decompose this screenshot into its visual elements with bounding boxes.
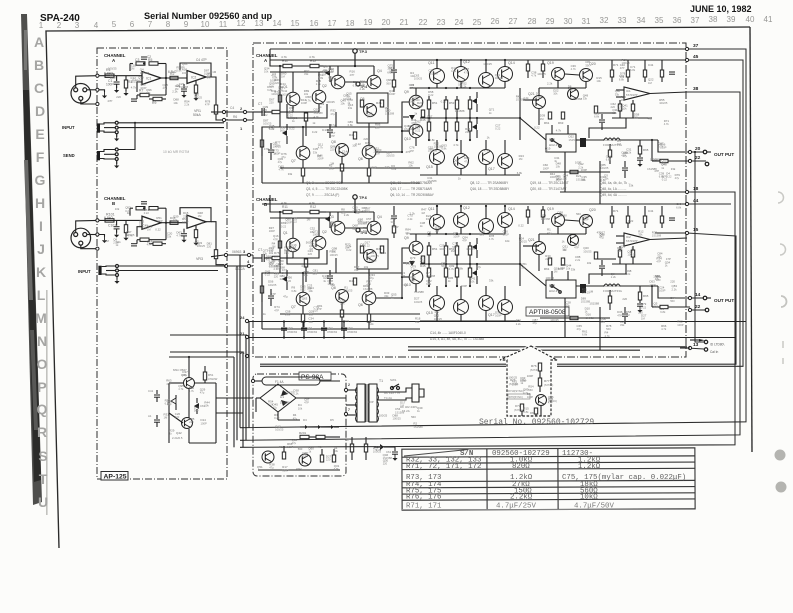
- wire relay feeds: [551, 125, 553, 134]
- svg-text:100P: 100P: [106, 83, 113, 87]
- ground SEND A: [116, 161, 118, 165]
- svg-text:26: 26: [491, 17, 500, 26]
- svg-text:47P: 47P: [617, 313, 622, 317]
- diode D13: [409, 115, 415, 120]
- rc cluster right: [610, 70, 613, 77]
- svg-text:M: M: [35, 310, 47, 326]
- svg-text:100P: 100P: [329, 167, 335, 171]
- diode D12: [472, 270, 477, 276]
- svg-text:4.7k: 4.7k: [451, 69, 457, 73]
- wire XLR pin2 to node: [76, 76, 98, 88]
- svg-text:R71: R71: [613, 63, 619, 67]
- bus 350: [408, 349, 640, 351]
- capacitor C51: [303, 322, 305, 328]
- svg-text:6.8k: 6.8k: [429, 138, 435, 142]
- svg-text:100P: 100P: [653, 275, 660, 279]
- svg-text:FOR MUTING: FOR MUTING: [603, 289, 623, 293]
- svg-text:2.2k: 2.2k: [410, 212, 416, 216]
- resistor bank right mid: [526, 64, 529, 71]
- op-amp U1: [142, 72, 161, 85]
- svg-text:47P: 47P: [304, 401, 309, 405]
- svg-text:C41: C41: [648, 209, 654, 213]
- node out A lower: [222, 118, 225, 121]
- svg-text:47μ: 47μ: [476, 265, 481, 269]
- svg-text:220: 220: [638, 310, 643, 314]
- svg-text:10k: 10k: [173, 101, 178, 105]
- diff collector wires: [292, 218, 294, 238]
- svg-text:B: B: [112, 201, 115, 206]
- svg-text:220: 220: [308, 252, 313, 256]
- rc cluster right: [610, 216, 613, 223]
- connector XLR channel A input: [71, 84, 91, 104]
- svg-text:TA7317P: TA7317P: [626, 239, 638, 243]
- svg-text:K: K: [36, 264, 46, 280]
- capacitor C101: [116, 220, 118, 225]
- svg-text:560: 560: [561, 266, 566, 270]
- svg-text:100/25: 100/25: [326, 100, 335, 104]
- wire top rail stub: [270, 195, 279, 212]
- svg-text:560: 560: [411, 415, 416, 419]
- diode D13: [409, 261, 415, 266]
- svg-text:33k: 33k: [634, 116, 639, 120]
- binder strip left: [21, 14, 48, 515]
- transistor Q15 output low: [430, 296, 445, 311]
- resistor R47: [392, 226, 395, 233]
- binder holes right: [775, 450, 786, 461]
- svg-text:100/25: 100/25: [393, 416, 402, 420]
- svg-text:100P: 100P: [342, 153, 348, 157]
- svg-text:33k: 33k: [348, 106, 353, 110]
- svg-text:R51: R51: [432, 101, 438, 105]
- svg-text:100P: 100P: [417, 104, 423, 108]
- svg-text:1S1588: 1S1588: [179, 85, 189, 89]
- svg-text:Q42: Q42: [176, 431, 182, 435]
- svg-text:100P: 100P: [461, 284, 468, 288]
- svg-text:6.8k: 6.8k: [458, 266, 464, 270]
- node pin1: [96, 88, 99, 91]
- svg-text:(SYNC): (SYNC): [544, 383, 553, 387]
- svg-text:R41: R41: [349, 133, 355, 137]
- capacitor C13: [327, 129, 333, 131]
- svg-text:33k: 33k: [629, 184, 634, 188]
- bias network block: [357, 239, 388, 269]
- svg-text:Q48, 4c, 1A ..........: Q48, 4c, 1A ..........: [600, 187, 627, 191]
- svg-text:4.7k: 4.7k: [314, 115, 320, 119]
- svg-text:1M: 1M: [589, 289, 594, 293]
- svg-text:6.8k: 6.8k: [676, 205, 682, 209]
- svg-text:100/25: 100/25: [414, 76, 423, 80]
- wire XLR pin3 to node: [81, 100, 98, 104]
- resistor R2: [170, 76, 178, 79]
- node out B upper: [224, 253, 227, 256]
- resistor R23 tail: [304, 113, 307, 121]
- svg-text:1M: 1M: [212, 70, 217, 74]
- svg-text:10k: 10k: [505, 239, 510, 243]
- svg-text:OUT PUT: OUT PUT: [714, 298, 734, 303]
- transistor Q3 mirror: [331, 221, 345, 235]
- transistor Q4 mirror: [367, 221, 381, 235]
- table bottom faded line: [402, 509, 695, 511]
- svg-text:220: 220: [275, 81, 280, 85]
- transistor Q14 output: [498, 213, 513, 228]
- svg-text:0.22: 0.22: [300, 288, 306, 292]
- muting caps: [154, 394, 160, 396]
- svg-text:6.8k: 6.8k: [536, 95, 542, 99]
- svg-text:22: 22: [419, 18, 428, 27]
- svg-text:33k: 33k: [415, 320, 420, 324]
- transistor Q4 mirror: [367, 75, 381, 89]
- svg-text:220: 220: [563, 176, 568, 180]
- diode D7: [380, 444, 384, 450]
- node B pin2: [96, 219, 99, 222]
- svg-text:47P: 47P: [278, 89, 283, 93]
- svg-text:47P: 47P: [462, 239, 467, 243]
- svg-text:100P: 100P: [282, 468, 288, 472]
- bus wire y338: [249, 337, 736, 339]
- svg-text:37: 37: [693, 43, 699, 49]
- node B pin1: [96, 233, 99, 236]
- svg-text:C101: C101: [108, 224, 116, 228]
- svg-text:10k: 10k: [553, 92, 558, 96]
- wire U2 output to VR1: [211, 77, 216, 105]
- svg-text:37: 37: [691, 16, 700, 25]
- svg-text:220: 220: [139, 222, 144, 226]
- wire XLR pin1 to node: [87, 89, 98, 91]
- svg-text:220: 220: [313, 272, 318, 276]
- svg-text:47μ: 47μ: [647, 117, 652, 121]
- node out A upper: [222, 110, 225, 113]
- svg-text:Q21: Q21: [528, 238, 535, 242]
- feedback U3: [161, 222, 166, 224]
- svg-text:SPA-240: SPA-240: [40, 13, 80, 24]
- svg-text:10k: 10k: [298, 406, 303, 410]
- wire ground stub: [99, 90, 105, 92]
- protection transistor Q19: [552, 68, 565, 81]
- svg-text:Q14: Q14: [508, 61, 515, 65]
- svg-text:6.8k: 6.8k: [630, 68, 636, 72]
- supply rail +B: [270, 48, 687, 50]
- protection transistor Q20: [580, 69, 593, 82]
- svg-text:9: 9: [184, 20, 189, 29]
- svg-text:C2: C2: [147, 55, 151, 59]
- capacitor C7 input coupling: [253, 111, 262, 113]
- svg-text:1S1588: 1S1588: [541, 217, 551, 221]
- svg-text:10k: 10k: [345, 245, 350, 249]
- svg-text:6: 6: [130, 20, 135, 29]
- resistor R12: [310, 210, 319, 213]
- transistor Q10 driver: [409, 124, 423, 138]
- svg-text:10k: 10k: [310, 241, 315, 245]
- svg-text:R79: R79: [515, 404, 521, 408]
- svg-text:100P: 100P: [313, 233, 319, 237]
- capacitor C45: [622, 167, 628, 169]
- svg-text:J: J: [37, 241, 45, 257]
- svg-text:10k: 10k: [264, 70, 269, 74]
- branch down x695: [695, 152, 704, 342]
- svg-text:100/25: 100/25: [126, 233, 135, 237]
- svg-text:4.7k: 4.7k: [176, 234, 182, 238]
- svg-text:SEND: SEND: [63, 153, 75, 158]
- ic comparator: [624, 233, 650, 246]
- svg-text:100P: 100P: [201, 421, 207, 425]
- emitter resistors top: [427, 246, 430, 255]
- svg-text:47P: 47P: [574, 246, 579, 250]
- protection transistor Q22: [568, 89, 579, 100]
- svg-text:4.7k: 4.7k: [189, 389, 195, 393]
- diode: [331, 425, 334, 429]
- svg-text:47μ: 47μ: [182, 373, 187, 377]
- transistor Q11 output: [430, 215, 445, 230]
- inductor L: [604, 138, 620, 140]
- svg-text:100/25: 100/25: [659, 101, 668, 105]
- resistor cluster protection: [548, 258, 551, 265]
- jack SEND A: [97, 151, 100, 160]
- svg-text:0.22: 0.22: [274, 416, 280, 420]
- svg-text:38: 38: [693, 86, 699, 92]
- transistor Q16 output low: [454, 300, 469, 315]
- vertical mesh wires: [279, 66, 281, 127]
- svg-text:220: 220: [263, 108, 268, 112]
- svg-text:TA7317P: TA7317P: [626, 93, 638, 97]
- svg-text:47P: 47P: [205, 102, 210, 106]
- protection transistor Q20: [580, 215, 593, 228]
- resistor column mid: [353, 278, 356, 285]
- svg-text:10k: 10k: [556, 165, 561, 169]
- svg-text:2.2k: 2.2k: [360, 87, 366, 91]
- relay contacts: [551, 139, 553, 141]
- svg-text:47P: 47P: [620, 66, 625, 70]
- resistor stack below IC: [631, 104, 634, 111]
- svg-text:33k: 33k: [571, 268, 576, 272]
- svg-text:47μ: 47μ: [545, 150, 550, 154]
- svg-text:2.2k: 2.2k: [328, 70, 334, 74]
- svg-text:47μ: 47μ: [163, 86, 168, 90]
- svg-text:R41: R41: [349, 279, 355, 283]
- svg-text:33k: 33k: [581, 178, 586, 182]
- svg-text:15: 15: [291, 19, 300, 28]
- svg-text:C: C: [34, 80, 44, 96]
- resistor R43: [421, 110, 424, 117]
- transistor Q7 lower left: [296, 292, 310, 306]
- svg-text:560: 560: [576, 212, 581, 216]
- svg-text:2.2k: 2.2k: [172, 90, 178, 94]
- svg-text:220: 220: [326, 458, 331, 462]
- svg-text:560: 560: [298, 447, 303, 451]
- svg-text:0.22: 0.22: [441, 99, 447, 103]
- svg-text:100P: 100P: [453, 234, 459, 238]
- svg-text:Q2: Q2: [322, 84, 327, 88]
- arrow mark: [699, 339, 705, 341]
- svg-text:220: 220: [383, 462, 388, 466]
- svg-text:R71: R71: [613, 209, 619, 213]
- svg-text:33k: 33k: [354, 268, 359, 272]
- resistor R11: [283, 210, 292, 213]
- emitter resistors top: [427, 100, 430, 109]
- bus west 364: [260, 363, 507, 365]
- svg-text:0.22: 0.22: [289, 127, 295, 131]
- svg-text:10k: 10k: [521, 265, 526, 269]
- svg-text:47P: 47P: [330, 134, 335, 138]
- svg-text:220: 220: [480, 233, 485, 237]
- wire diff emitters: [293, 250, 319, 258]
- bus wire y322: [249, 321, 746, 323]
- right bus verticals: [240, 49, 746, 447]
- svg-text:1S1588: 1S1588: [650, 157, 660, 161]
- transistor Q15 output low: [430, 150, 445, 165]
- svg-text:1S1588: 1S1588: [426, 274, 436, 278]
- svg-text:D3: D3: [303, 418, 307, 422]
- low rail: [420, 320, 520, 322]
- svg-text:220: 220: [175, 415, 180, 419]
- svg-text:10k: 10k: [364, 265, 369, 269]
- dots mesh: [519, 117, 521, 119]
- svg-text:33k: 33k: [565, 304, 570, 308]
- svg-text:R12: R12: [310, 205, 316, 209]
- transformer wires: [346, 389, 357, 391]
- svg-text:R31: R31: [376, 101, 382, 105]
- svg-text:22: 22: [695, 304, 701, 310]
- svg-text:0.22: 0.22: [428, 93, 434, 97]
- svg-text:2.2k: 2.2k: [402, 283, 408, 287]
- fuse pill: [262, 377, 320, 385]
- svg-text:G: G: [35, 172, 46, 188]
- transistor Q11 output: [430, 69, 445, 84]
- wire muting feed 335: [170, 334, 247, 336]
- svg-text:P: P: [37, 379, 46, 395]
- resistor R103: [124, 225, 127, 233]
- svg-text:38: 38: [709, 15, 718, 24]
- svg-text:Q16, 18 ...... TR 2SD586BY: Q16, 18 ...... TR 2SD586BY: [470, 187, 510, 191]
- svg-text:100P: 100P: [182, 220, 188, 224]
- svg-text:10k: 10k: [340, 102, 345, 106]
- svg-text:220: 220: [375, 125, 380, 129]
- transformer T1: [357, 384, 365, 422]
- svg-text:2.2k: 2.2k: [523, 96, 529, 100]
- svg-text:33k: 33k: [604, 177, 609, 181]
- resistor R43: [421, 256, 424, 263]
- sense resistor: [660, 159, 668, 162]
- bus west 366: [260, 365, 507, 367]
- svg-text:100P: 100P: [649, 283, 655, 287]
- ground INPUT B: [116, 277, 118, 280]
- svg-text:D: D: [35, 103, 45, 119]
- svg-text:R201: R201: [299, 431, 307, 435]
- svg-text:560: 560: [415, 98, 420, 102]
- svg-text:47P: 47P: [264, 147, 269, 151]
- test point TP: [353, 49, 357, 53]
- svg-text:4.7k: 4.7k: [178, 387, 184, 391]
- svg-text:Q19: Q19: [547, 207, 554, 211]
- resistor column mid: [353, 132, 356, 139]
- svg-text:R77: R77: [544, 379, 550, 383]
- wire input B bus: [119, 265, 227, 267]
- wire input run R101: [99, 219, 142, 221]
- op-amp U2: [187, 71, 206, 84]
- svg-text:6.8k: 6.8k: [348, 123, 354, 127]
- svg-text:Q12: Q12: [463, 206, 470, 210]
- wire output line: [520, 118, 546, 140]
- diff collector wires: [292, 72, 294, 92]
- bus node18: [240, 192, 735, 447]
- resistor R203: [316, 435, 325, 438]
- zener D41: [171, 398, 176, 404]
- svg-text:100/25: 100/25: [600, 166, 609, 170]
- svg-text:15: 15: [693, 227, 699, 233]
- svg-text:47P: 47P: [329, 79, 334, 83]
- svg-text:220: 220: [622, 297, 627, 301]
- wire: [309, 436, 316, 438]
- svg-text:41: 41: [764, 15, 773, 24]
- svg-text:1S1588: 1S1588: [385, 112, 395, 116]
- svg-text:(SYNC): (SYNC): [530, 368, 539, 372]
- svg-text:C41: C41: [148, 389, 154, 393]
- protection wiring: [538, 234, 540, 241]
- svg-text:10k: 10k: [408, 164, 413, 168]
- svg-text:560: 560: [654, 305, 659, 309]
- svg-text:R: R: [37, 424, 47, 440]
- svg-text:100P: 100P: [301, 101, 307, 105]
- resistor cluster protection: [548, 112, 551, 119]
- svg-text:2.2k: 2.2k: [461, 85, 467, 89]
- svg-text:4.7k: 4.7k: [318, 146, 324, 150]
- svg-text:39: 39: [727, 15, 736, 24]
- transistor Q52 ps: [299, 454, 311, 466]
- svg-text:Q19: Q19: [547, 61, 554, 65]
- resistor R26: [278, 95, 281, 102]
- svg-text:33k: 33k: [615, 92, 620, 96]
- wire gnd stub B: [99, 235, 105, 237]
- wire to op-amp lower input: [98, 89, 100, 91]
- svg-text:100P: 100P: [495, 314, 501, 318]
- svg-text:1S1588: 1S1588: [573, 97, 583, 101]
- svg-text:10k: 10k: [621, 98, 626, 102]
- svg-text:1M: 1M: [105, 239, 110, 243]
- resistor R33: [360, 100, 363, 107]
- svg-text:2.2k: 2.2k: [672, 287, 678, 291]
- svg-text:S: S: [38, 448, 47, 464]
- svg-text:6.8k: 6.8k: [387, 70, 393, 74]
- capacitor C13: [327, 275, 333, 277]
- svg-text:1S1588: 1S1588: [652, 233, 662, 237]
- resistor R25: [301, 168, 304, 176]
- svg-text:33k: 33k: [384, 294, 389, 298]
- svg-text:10kΩ: 10kΩ: [580, 494, 598, 502]
- row letters A-U: [34, 34, 48, 510]
- wire XLR-B pin3: [81, 245, 98, 249]
- svg-text:6.8k: 6.8k: [582, 333, 588, 337]
- svg-text:4.7k: 4.7k: [131, 85, 137, 89]
- node 298: [688, 296, 691, 299]
- svg-text:50kA: 50kA: [193, 113, 201, 117]
- transistor Q17 output low: [479, 150, 494, 165]
- svg-text:Q10: Q10: [404, 137, 411, 141]
- svg-text:4.7k: 4.7k: [309, 55, 315, 59]
- svg-text:47μ: 47μ: [366, 220, 371, 224]
- svg-text:1.2kΩ: 1.2kΩ: [578, 463, 601, 471]
- resistor R111: [194, 230, 197, 238]
- svg-text:47P: 47P: [420, 260, 425, 264]
- relay RY: [546, 280, 576, 298]
- output stage top rail: [410, 87, 505, 89]
- svg-text:0.22: 0.22: [144, 211, 150, 215]
- svg-text:Q6, 10, 14 ..... TR 2SC906BAY: Q6, 10, 14 ..... TR 2SC906BAY: [390, 193, 435, 197]
- svg-text:U: U: [38, 494, 48, 510]
- svg-text:20: 20: [695, 146, 701, 152]
- ground XLR B: [104, 236, 106, 240]
- svg-text:33k: 33k: [313, 150, 318, 154]
- transistor Q9 driver: [409, 95, 423, 109]
- cap C21: [599, 119, 605, 121]
